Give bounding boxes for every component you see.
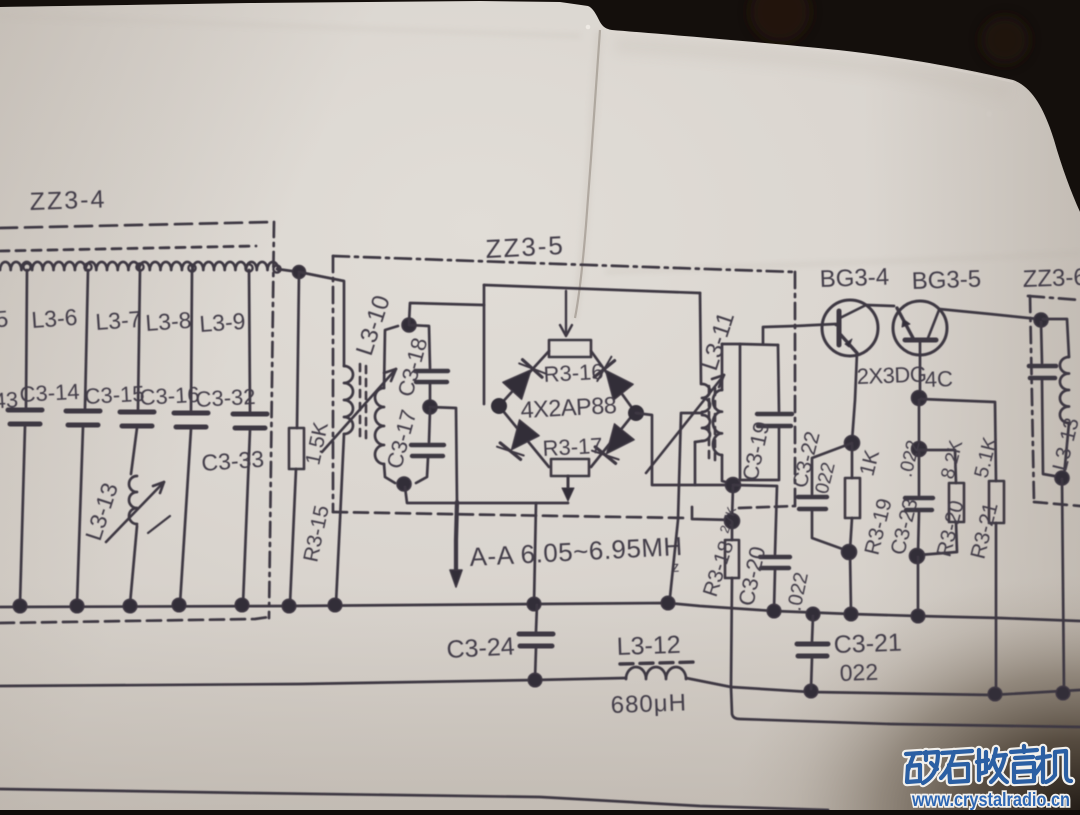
inductor L3-12 (on bus 2) — [626, 667, 731, 687]
label C3-16 — [139, 382, 200, 410]
label 4X2AP88 (ring diodes type) — [520, 392, 617, 423]
value label 1.5K (rotated) — [301, 420, 332, 467]
label C3-33 — [201, 446, 265, 476]
junction node base BG3-5 — [912, 391, 927, 406]
transformer L3-10 primary winding — [299, 272, 353, 603]
label C3-19 (rotated) — [737, 419, 774, 483]
capacitor C3-14 — [66, 270, 100, 604]
node middle of C3-17/C3-18 — [423, 400, 437, 414]
svg-text:BG3-4: BG3-4 — [819, 264, 889, 293]
value label 022 of C3-21 — [839, 659, 878, 686]
value label 8.2K (rotated) — [937, 438, 967, 481]
value label 5.1K (rotated) — [971, 434, 1002, 480]
capacitor C3-19 with loop — [722, 344, 792, 484]
label A-A 6.05~6.95MHz — [469, 531, 684, 576]
svg-text:L3-12: L3-12 — [616, 631, 681, 661]
wire node to R3-18 with stub — [692, 487, 733, 520]
junction node below R3-19 — [842, 545, 857, 560]
label R3-21 (rotated) — [967, 500, 1003, 561]
svg-text:ZZ3-5: ZZ3-5 — [485, 230, 566, 264]
label C3-14 — [19, 379, 80, 407]
diode D3 (bottom-left of ring, 2AP8) — [497, 420, 539, 460]
node top of tank — [402, 318, 416, 332]
capacitor C3-24 — [519, 605, 553, 679]
svg-text:C3-15: C3-15 — [84, 381, 145, 409]
svg-text:43: 43 — [0, 387, 19, 413]
capacitor C3-22 — [798, 443, 852, 551]
junction nodes on bus 1 — [13, 596, 925, 623]
svg-text:www.crystalradio.cn: www.crystalradio.cn — [911, 790, 1070, 810]
wire bus 1 (upper common rail) — [0, 603, 1080, 621]
label C3-17 (rotated) — [382, 407, 422, 471]
wire return (lower right) — [731, 687, 1080, 727]
svg-text:L3-6: L3-6 — [31, 304, 79, 333]
diode D4 (bottom-right of ring, 2AP8) — [592, 424, 634, 464]
svg-text:2X3DG: 2X3DG — [856, 362, 926, 389]
label C3-22 (rotated) — [789, 429, 825, 490]
svg-text:L3-8: L3-8 — [145, 307, 193, 336]
inductor label L3-7 — [95, 306, 143, 335]
wire bus 2 (lower common rail, left part) — [0, 678, 626, 686]
label R3-17 — [542, 433, 603, 461]
label C3-13 (partial "3") — [0, 387, 19, 413]
capacitor C3-13 (right box) — [1029, 322, 1060, 477]
wire base node to R3-21 — [921, 399, 996, 481]
svg-text:C3-16: C3-16 — [139, 382, 200, 410]
transistor BG3-4 — [822, 300, 878, 441]
transformer L3-10 core — [360, 364, 366, 444]
capacitor C3-23 — [905, 451, 933, 554]
label BG3-5 — [911, 266, 981, 295]
svg-text:4X2AP88: 4X2AP88 — [520, 392, 617, 423]
core bar of L3-12 (dashed) — [620, 662, 695, 664]
label C3-32 — [195, 384, 256, 412]
inductor chain L3-5 L3-6 L3-7 L3-8 L3-9 (series coils) — [0, 262, 278, 270]
label L3-10 (rotated) — [351, 292, 396, 359]
wire C3-23 bottom to bus — [917, 557, 920, 613]
svg-text:ZZ3-6: ZZ3-6 — [1022, 264, 1080, 293]
label R3-15 (rotated) — [299, 503, 333, 564]
svg-text:C3-33: C3-33 — [201, 446, 265, 476]
label R3-16 — [543, 359, 604, 387]
output arrow from R3-17 down — [562, 476, 574, 501]
transformer L3-11 primary winding (with centre tap) — [695, 293, 710, 442]
capacitor C3-15 — [120, 270, 154, 474]
transformer L3-11 secondary winding — [713, 344, 733, 484]
junction node top of C3-23/R3-20 — [912, 442, 927, 457]
adjustment arrow into R3-16 — [560, 291, 572, 336]
svg-text:C3-21: C3-21 — [833, 629, 902, 659]
inductor label L3-9 — [199, 308, 247, 337]
svg-text:L3-9: L3-9 — [199, 308, 247, 337]
label R3-20 (rotated) — [933, 498, 969, 559]
capacitor C3-21 — [797, 616, 828, 689]
junction node bottom of right box — [1055, 471, 1069, 485]
label C3-21 — [833, 629, 902, 659]
resistor R3-15 — [289, 274, 304, 604]
wire bus 2 (right part) — [731, 687, 1080, 695]
centre-tap wire of L3-11 down to bus — [670, 413, 702, 597]
resistor R3-21 — [989, 481, 1004, 687]
node left of ring — [491, 398, 507, 414]
label L3-11 (rotated) — [696, 309, 740, 374]
inductor label L3-8 — [145, 307, 193, 336]
label ZZ3-4 — [29, 185, 107, 216]
wire tank-bottom to ring-bottom (lower link) — [405, 487, 568, 503]
label L3-5 (partial at edge) — [0, 305, 9, 332]
svg-text:C3-32: C3-32 — [195, 384, 256, 412]
shield box ZZ3-5 (dash-dot enclosure) — [333, 256, 795, 518]
outer frame wire of ring modulator — [484, 285, 700, 404]
inductor L3-13 (right box) — [1043, 319, 1069, 476]
value label 1K (rotated) — [856, 448, 885, 478]
svg-text:R3-16: R3-16 — [543, 359, 604, 387]
label C3-15 — [84, 381, 145, 409]
label C3-18 (rotated) — [393, 335, 433, 399]
value label 680uH — [610, 689, 687, 719]
junction node emitter BG3-4 — [845, 436, 860, 451]
svg-text:022: 022 — [839, 659, 878, 686]
label C3-23 (rotated) — [887, 496, 923, 557]
wire base node down — [918, 400, 921, 447]
svg-text:C3-14: C3-14 — [19, 379, 80, 407]
value label .022 of C3-23 (rotated) — [895, 438, 924, 479]
junction nodes on bus 2 — [528, 673, 1070, 701]
wire C3-19 top to transistor base — [763, 324, 836, 344]
capacitor C3-18 — [409, 325, 448, 404]
label R3-19 (rotated) — [861, 496, 897, 557]
svg-text:R3-17: R3-17 — [542, 433, 603, 461]
capacitor C3-20 — [733, 485, 790, 610]
svg-text:4C: 4C — [924, 366, 953, 392]
node right of ring — [628, 405, 644, 421]
junction node input of right box — [1034, 313, 1048, 327]
wire return (bottom edge) — [0, 789, 828, 810]
label ZZ3-6 (clipped) — [1022, 264, 1080, 293]
svg-text:ZZ3-4: ZZ3-4 — [29, 185, 107, 216]
junction node bottom of C3-23/R3-20 — [910, 549, 925, 564]
label L3-13 (left box, rotated) — [80, 480, 123, 544]
svg-text:680μH: 680μH — [610, 689, 687, 719]
capacitor C3-17 — [411, 410, 444, 483]
capacitor C3-16 — [174, 270, 208, 604]
label C3-20 (rotated) — [733, 544, 770, 608]
resistor R3-19 — [845, 445, 860, 612]
value label .022 of C3-22 (rotated) — [810, 460, 839, 501]
resistor R3-18 — [725, 522, 739, 686]
diode D2 (top-right of ring, 2AP8) — [594, 357, 633, 400]
variable inductor L3-13 (left box) — [106, 476, 170, 604]
wire ring right node to L3-11 — [636, 413, 733, 485]
wire tank top to ring frame — [409, 303, 484, 323]
capacitor C3-32 — [233, 270, 267, 604]
junction node above R3-18 — [725, 514, 740, 529]
value label .022 of C3-20 (rotated) — [783, 570, 813, 613]
resistor R3-16 — [549, 340, 591, 357]
wire branch down to bus (x=535) — [534, 503, 536, 604]
transformer L3-11 core — [709, 386, 715, 460]
inductor label L3-6 — [31, 304, 79, 333]
variable-coupling arrow of L3-11 — [646, 375, 724, 473]
resistor R3-17 — [551, 459, 589, 476]
label C3-24 — [446, 632, 516, 664]
svg-text:L3-7: L3-7 — [95, 306, 143, 335]
transformer L3-10 secondary winding — [375, 326, 398, 483]
shield box ZZ3-6 (dash-dot, right edge) — [1028, 296, 1080, 506]
label BG3-4 — [819, 264, 889, 293]
variable-coupling arrow of L3-10 — [322, 369, 396, 452]
junction node below L3-11 — [726, 478, 741, 493]
node (junction) input — [293, 266, 306, 279]
label L3-12 — [616, 631, 681, 661]
svg-text:C3-24: C3-24 — [446, 632, 516, 664]
wire from coil chain to node and R3-15 — [277, 269, 299, 272]
svg-text:BG3-5: BG3-5 — [911, 266, 981, 295]
label ZZ3-5 — [485, 230, 566, 264]
watermark — [906, 746, 1071, 783]
diode D1 (top-left of ring, 2AP8) — [503, 360, 546, 400]
type label 2X3DG 4C — [856, 362, 953, 392]
node taps on coil chain — [23, 263, 280, 272]
wire right box down to bus 2 — [1062, 479, 1064, 692]
ring diamond wires — [499, 351, 635, 467]
A-A takeoff wire with arrow — [430, 407, 462, 587]
transistor BG3-5 — [866, 301, 1038, 396]
shield box ZZ3-4 (dashed enclosure) — [0, 222, 274, 623]
label R3-18 2.7K (rotated) — [699, 505, 739, 600]
label L3-13 (rotated) — [1049, 416, 1080, 474]
resistor R3-20 — [919, 450, 964, 555]
capacitor C3-13 (partial, leftmost column) — [8, 270, 42, 604]
node bottom of tank — [397, 477, 411, 491]
